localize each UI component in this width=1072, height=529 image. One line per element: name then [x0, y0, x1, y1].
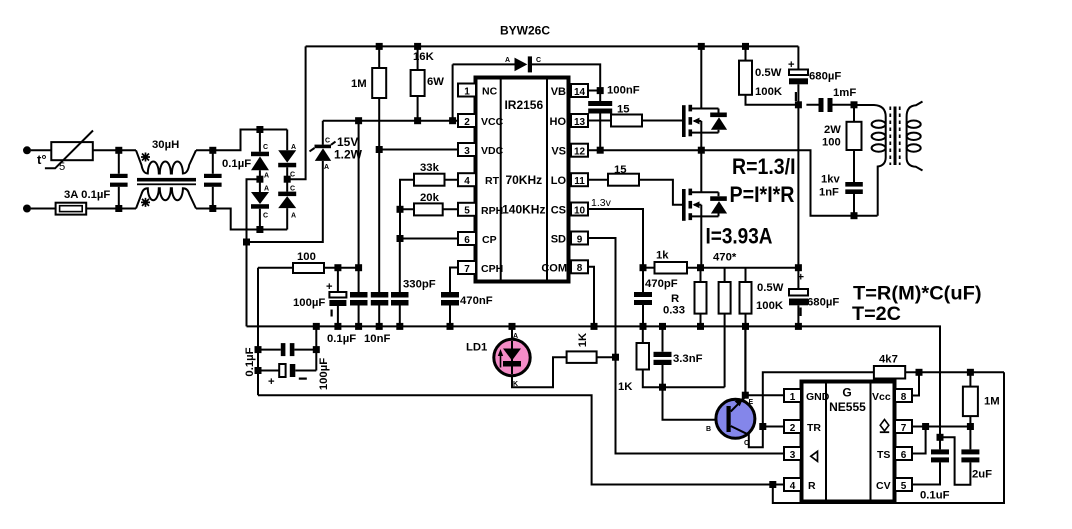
resistor 1M (NE555) — [963, 372, 1000, 426]
pin 14 VB — [551, 84, 588, 98]
svg-text:6W: 6W — [427, 76, 444, 88]
svg-text:100nF: 100nF — [607, 85, 640, 97]
svg-text:330pF: 330pF — [403, 279, 436, 291]
svg-text:7: 7 — [901, 423, 907, 434]
wire HO to gate resistor — [588, 120, 611, 122]
capacitor 470nF (CPH) — [441, 268, 493, 327]
wire — [196, 130, 287, 151]
junction VB — [597, 87, 604, 94]
junction — [414, 117, 421, 124]
svg-text:100µF: 100µF — [293, 297, 325, 309]
junction — [397, 235, 404, 242]
svg-text:LO: LO — [551, 175, 567, 187]
resistor 1k (CS) — [643, 250, 798, 274]
wire CP — [400, 238, 458, 240]
wire DC minus to ground bus — [247, 179, 260, 326]
capacitor 10nF — [371, 150, 389, 327]
pin 1 NC — [458, 84, 498, 98]
svg-text:+: + — [268, 376, 275, 388]
pin 7 CPH — [458, 261, 503, 275]
junction bridge right mid — [284, 176, 291, 183]
junction — [243, 239, 250, 246]
bridge rectifier: junction top — [256, 126, 263, 133]
svg-text:C: C — [325, 138, 330, 145]
wire COM to ground bus — [588, 267, 594, 327]
svg-text:T=R(M)*C(uF): T=R(M)*C(uF) — [853, 284, 982, 305]
junction — [115, 205, 122, 212]
svg-text:IR2156: IR2156 — [504, 98, 543, 112]
svg-text:10: 10 — [574, 205, 586, 216]
wire VCC line — [323, 120, 459, 122]
diode D3 (bridge right top) — [278, 130, 296, 180]
junction — [115, 147, 122, 154]
svg-text:C: C — [744, 440, 749, 447]
svg-text:680µF: 680µF — [807, 297, 839, 309]
capacitor CX2 0.1uF — [204, 150, 251, 208]
resistor R 0.33 — [663, 268, 707, 327]
svg-text:5: 5 — [464, 206, 470, 217]
pin 13 HO — [550, 114, 589, 128]
svg-text:A: A — [291, 213, 296, 220]
junctions on 4k7 line — [916, 369, 923, 376]
junction lower rail — [795, 264, 802, 271]
pin 6 CP — [458, 232, 497, 246]
svg-text:4k7: 4k7 — [879, 354, 898, 366]
svg-text:70KHz: 70KHz — [505, 173, 542, 187]
junction — [334, 264, 341, 271]
wire — [31, 149, 51, 151]
node CS junction — [640, 264, 647, 271]
resistor 100 — [258, 251, 359, 273]
IC U2 NE555 body — [802, 382, 895, 502]
junction bus riser / 0.1uF top — [937, 434, 944, 441]
zener ZD1 15V 1.2W — [247, 121, 363, 242]
svg-text:GND: GND — [806, 391, 830, 403]
svg-text:8: 8 — [901, 392, 907, 403]
svg-text:C: C — [290, 172, 295, 179]
svg-text:100: 100 — [297, 251, 316, 263]
svg-text:VCC: VCC — [481, 116, 504, 128]
svg-text:30µH: 30µH — [152, 139, 179, 151]
svg-text:1nF: 1nF — [819, 187, 839, 199]
junctions — [922, 423, 929, 430]
svg-text:100: 100 — [822, 137, 841, 149]
svg-text:0.1µF: 0.1µF — [222, 158, 251, 170]
pin 3 output — [784, 447, 818, 461]
svg-text:C: C — [263, 213, 268, 220]
svg-text:1: 1 — [464, 86, 470, 97]
capacitor 470pF — [634, 268, 678, 327]
pin 3 VDC — [458, 143, 504, 157]
polarity star top — [141, 153, 150, 162]
svg-text:SD: SD — [551, 234, 566, 246]
svg-text:3: 3 — [464, 146, 470, 157]
svg-text:0.33: 0.33 — [663, 305, 685, 317]
wire Vcc pin 8 — [912, 372, 919, 395]
svg-text:680µF: 680µF — [809, 71, 841, 83]
svg-text:NC: NC — [482, 85, 498, 97]
svg-text:0.5W: 0.5W — [755, 67, 782, 79]
svg-text:12: 12 — [574, 147, 586, 158]
svg-text:+: + — [788, 59, 795, 71]
resistor 0.5W 100K (top) — [739, 46, 798, 104]
transformer TR1 primary winding — [854, 105, 886, 216]
diode D4 (bridge right bottom) — [278, 179, 296, 229]
svg-text:R=1.3/I: R=1.3/I — [732, 154, 796, 179]
svg-text:1.3v: 1.3v — [591, 197, 612, 209]
svg-text:BYW26C: BYW26C — [500, 24, 550, 38]
wire — [31, 208, 56, 210]
transistor Q2 MOSFET low side — [682, 150, 727, 268]
svg-text:470nF: 470nF — [460, 295, 493, 307]
svg-text:A: A — [513, 333, 518, 340]
junction — [698, 147, 705, 154]
svg-text:20k: 20k — [420, 192, 440, 204]
junction VDC — [376, 146, 383, 153]
transformer TR1 secondary winding — [907, 102, 923, 171]
pin 8 COM — [541, 260, 588, 274]
svg-text:A: A — [291, 144, 296, 151]
svg-text:6: 6 — [901, 450, 907, 461]
svg-text:CS: CS — [551, 205, 566, 217]
resistor 16K 6W — [411, 46, 445, 120]
svg-text:6: 6 — [464, 235, 470, 246]
svg-text:A: A — [505, 57, 510, 64]
resistor 20k (RPH) — [400, 192, 458, 239]
wire reset loop — [773, 372, 1004, 503]
svg-text:1mF: 1mF — [833, 87, 856, 99]
junction source node — [697, 264, 704, 271]
svg-text:4: 4 — [464, 176, 470, 187]
svg-text:1K: 1K — [577, 332, 589, 347]
svg-text:COM: COM — [541, 262, 567, 274]
junction — [851, 212, 858, 219]
wire LO to gate resistor — [588, 179, 608, 181]
capacitor CX1 — [110, 150, 128, 208]
transistor Q3 (NPN, blue) — [706, 395, 763, 447]
junction — [355, 117, 362, 124]
svg-text:13: 13 — [574, 117, 586, 128]
svg-text:+: + — [326, 281, 333, 293]
junction — [851, 101, 858, 108]
svg-text:100K: 100K — [755, 86, 783, 98]
resistor 15 (low side gate) — [608, 164, 682, 205]
junction — [449, 117, 456, 124]
svg-text:B: B — [706, 426, 711, 433]
pin 12 VS — [551, 144, 588, 158]
svg-text:7: 7 — [464, 264, 470, 275]
svg-text:VB: VB — [551, 86, 566, 98]
pin 4 RT — [458, 173, 500, 187]
svg-text:4: 4 — [790, 481, 796, 492]
svg-text:HO: HO — [550, 116, 567, 128]
junction SD/1K — [612, 354, 619, 361]
capacitor 3.3nF — [654, 326, 703, 387]
svg-text:NE555: NE555 — [829, 400, 866, 414]
wire — [196, 209, 287, 230]
capacitor 0.1uF (horizontal) — [258, 343, 316, 356]
pin 7 discharge — [880, 420, 912, 434]
wire — [86, 208, 136, 210]
svg-text:A: A — [264, 173, 269, 180]
inductor L1 30uH common-mode choke — [136, 139, 196, 209]
pin 5 CV — [876, 478, 912, 492]
svg-text:TR: TR — [807, 422, 821, 434]
resistor 1K (vertical below bus) — [618, 326, 663, 393]
junction collector/TR — [759, 423, 766, 430]
pin 2 TR — [784, 420, 821, 434]
capacitor 100uF (horizontal electrolytic) — [258, 364, 316, 388]
svg-text:9: 9 — [577, 234, 583, 245]
junction emitter/GND — [742, 392, 749, 399]
svg-text:2: 2 — [790, 423, 796, 434]
svg-text:I=3.93A: I=3.93A — [706, 224, 773, 249]
svg-text:C: C — [290, 186, 295, 193]
svg-text:1: 1 — [790, 392, 796, 403]
wire joiner to bus — [315, 326, 317, 370]
svg-text:0.1µF: 0.1µF — [244, 347, 256, 376]
svg-text:t°: t° — [37, 152, 47, 167]
wire VS line — [588, 150, 878, 216]
junction — [397, 206, 404, 213]
capacitor 0.1uF (VCC) — [350, 121, 368, 327]
svg-text:T=2C: T=2C — [852, 304, 901, 325]
svg-text:8: 8 — [577, 263, 583, 274]
capacitor 2uF — [940, 427, 992, 485]
svg-text:1kv: 1kv — [821, 174, 840, 186]
pin 1 GND — [784, 389, 830, 403]
pin 4 R — [784, 478, 816, 492]
svg-text:15: 15 — [614, 164, 627, 176]
svg-text:A: A — [324, 164, 329, 171]
svg-text:+: + — [798, 272, 805, 284]
diode D1 (bridge left top) — [251, 130, 269, 180]
svg-text:0.1µF: 0.1µF — [327, 333, 356, 345]
junction — [209, 205, 216, 212]
junction bottom — [256, 226, 263, 233]
svg-text:2W: 2W — [824, 124, 841, 136]
wire VDC line — [379, 149, 458, 151]
svg-text:CV: CV — [876, 480, 891, 492]
thermistor t deg 5 — [37, 131, 93, 174]
wire VB — [588, 90, 600, 92]
svg-text:R: R — [808, 480, 816, 492]
wire left vertical to bottom rail — [257, 268, 259, 396]
svg-text:Vcc: Vcc — [872, 391, 891, 403]
LED LD1 — [466, 326, 567, 388]
svg-text:0.5W: 0.5W — [757, 282, 784, 294]
pin 8 Vcc — [872, 389, 912, 403]
capacitor 680uF (bottom) — [789, 268, 839, 327]
junction — [698, 43, 705, 50]
junction — [795, 101, 802, 108]
svg-text:1k: 1k — [656, 250, 669, 262]
transformer core — [890, 107, 899, 166]
junction — [742, 43, 749, 50]
svg-text:C: C — [536, 57, 541, 64]
capacitor 100uF (VCC) — [293, 268, 346, 327]
pin 5 RPH — [458, 203, 503, 217]
wire TR to 4k7 left — [763, 372, 874, 426]
polarity star bottom — [141, 198, 150, 207]
svg-text:14: 14 — [574, 87, 586, 98]
svg-text:CPH: CPH — [481, 263, 503, 275]
svg-text:3A 0.1µF: 3A 0.1µF — [64, 189, 110, 201]
junctions — [255, 346, 262, 353]
capacitor 100nF — [588, 85, 640, 151]
svg-text:R: R — [671, 293, 679, 305]
svg-text:VS: VS — [551, 146, 566, 158]
junction — [376, 43, 383, 50]
resistor 33k (RT) — [400, 162, 458, 209]
svg-text:A: A — [264, 186, 269, 193]
svg-text:G: G — [842, 386, 851, 400]
svg-text:2uF: 2uF — [972, 469, 992, 481]
svg-text:470*: 470* — [713, 252, 737, 264]
wire bottom rail to NE555 pin 4 — [258, 395, 784, 484]
svg-text:15: 15 — [617, 104, 630, 116]
capacitor 330pF — [391, 239, 436, 327]
wire SD to NE555 pin3 — [588, 238, 784, 454]
svg-text:3.3nF: 3.3nF — [673, 353, 703, 365]
svg-text:P=I*I*R: P=I*I*R — [730, 182, 795, 207]
pin 6 TS — [877, 447, 912, 461]
wire main ground bus — [247, 326, 941, 437]
svg-text:CP: CP — [482, 234, 497, 246]
wire top power rail — [306, 45, 799, 47]
junction — [769, 481, 776, 488]
svg-text:1M: 1M — [351, 78, 367, 90]
svg-text:C: C — [263, 144, 268, 151]
capacitor 680uF (top) — [788, 46, 841, 104]
svg-text:140KHz: 140KHz — [502, 203, 545, 217]
wire TS pin 6 — [912, 427, 926, 454]
svg-text:0.1uF: 0.1uF — [920, 490, 950, 502]
resistor 2W 100 — [822, 105, 862, 182]
resistor 0.5W 100K (bottom) — [740, 268, 784, 396]
svg-text:33k: 33k — [420, 162, 440, 174]
wire — [93, 149, 136, 151]
wire CS — [588, 209, 643, 268]
svg-text:100µF: 100µF — [318, 358, 330, 390]
svg-text:2: 2 — [464, 117, 470, 128]
fuse 3A — [56, 189, 111, 215]
svg-text:1M: 1M — [984, 396, 1000, 408]
svg-text:RPH: RPH — [481, 205, 503, 217]
terminal T1 (line input) — [23, 146, 31, 154]
capacitor 1nF 1kv — [819, 174, 863, 216]
junction bridge left mid — [256, 176, 263, 183]
junction — [209, 147, 216, 154]
junction — [597, 147, 604, 154]
pin 9 SD — [551, 232, 588, 246]
junction — [414, 43, 421, 50]
resistor 15 (high side gate) — [611, 104, 682, 127]
svg-text:5: 5 — [59, 161, 65, 173]
svg-text:TS: TS — [877, 449, 890, 461]
svg-text:E: E — [749, 399, 754, 406]
svg-text:RT: RT — [485, 175, 500, 187]
capacitor 0.1uF (CV) — [912, 437, 950, 501]
wire rail down to low side — [797, 105, 799, 268]
transistor Q1 MOSFET high side — [682, 46, 727, 150]
diode D5 BYW26C — [453, 24, 601, 121]
wire node to 470* and base — [663, 387, 727, 420]
svg-text:3: 3 — [790, 450, 796, 461]
svg-text:1K: 1K — [618, 381, 633, 393]
svg-text:LD1: LD1 — [466, 342, 487, 354]
terminal T2 (neutral input) — [23, 205, 31, 213]
junction node — [659, 384, 666, 391]
op-amp/IC U1 IR2156 body — [476, 78, 569, 282]
svg-text:470pF: 470pF — [645, 278, 678, 290]
svg-text:VDC: VDC — [481, 145, 504, 157]
svg-text:100K: 100K — [756, 300, 784, 312]
resistor 1M — [351, 46, 386, 149]
wire DC plus riser to top rail — [287, 46, 305, 179]
junction bus — [313, 323, 320, 330]
resistor 1K (LED) — [567, 332, 616, 363]
svg-text:10nF: 10nF — [364, 333, 390, 345]
pin 11 LO — [551, 173, 588, 187]
diode D2 (bridge left bottom) — [251, 179, 269, 229]
svg-text:5: 5 — [901, 481, 907, 492]
svg-text:11: 11 — [574, 176, 585, 187]
wire pin 7 line — [912, 426, 970, 428]
pin 10 CS — [551, 203, 588, 217]
resistor 4k7 — [874, 354, 1004, 379]
resistor 470* — [713, 252, 737, 388]
svg-text:16K: 16K — [413, 51, 435, 63]
pin 2 VCC — [458, 114, 504, 128]
capacitor 1mF — [806, 87, 856, 112]
wire GND riser — [745, 326, 784, 395]
